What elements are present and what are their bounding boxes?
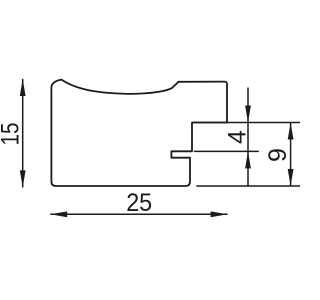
extension line bottom y=186 <box>196 185 300 187</box>
dimension line 15 (left) <box>22 79 24 187</box>
dimension line 25 (bottom) <box>50 213 227 215</box>
arrow 9 top (pointing up) <box>288 123 294 140</box>
arrow 4 bottom (pointing up) <box>245 151 251 168</box>
svg-text:9: 9 <box>264 148 292 162</box>
dimension line 4 (right, arrows outside) <box>247 88 249 187</box>
dimension line 9 (far right) <box>290 123 292 187</box>
moulding profile outline <box>51 80 227 186</box>
arrow 15 bottom <box>20 170 26 187</box>
arrow 25 right <box>211 211 228 217</box>
arrow 4 top (pointing down) <box>245 106 251 123</box>
extension line groove top y=151.4 <box>194 150 259 152</box>
svg-text:25: 25 <box>126 189 152 217</box>
svg-text:4: 4 <box>223 130 251 144</box>
extension line rabbet top y=122.5 <box>192 122 300 124</box>
arrow 25 left <box>50 211 67 217</box>
arrow 15 top <box>20 79 26 96</box>
svg-text:15: 15 <box>0 123 24 146</box>
arrow 9 bottom (pointing down) <box>288 169 294 186</box>
